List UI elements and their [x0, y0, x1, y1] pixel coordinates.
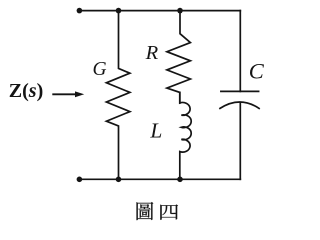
svg-text:G: G	[93, 59, 107, 80]
resistor G	[106, 11, 129, 180]
junction node RL top	[177, 8, 183, 14]
caption char 四	[160, 204, 178, 219]
caption char 圖	[137, 202, 154, 220]
svg-text:L: L	[149, 118, 162, 142]
wire right side top (to capacitor)	[239, 11, 241, 92]
junction node RL bottom	[177, 177, 183, 183]
svg-text:Z(s): Z(s)	[9, 80, 43, 102]
capacitor C top plate	[221, 90, 259, 92]
arrow head	[75, 91, 84, 97]
junction node G top	[116, 8, 122, 14]
arrow shaft	[53, 93, 76, 95]
svg-text:C: C	[249, 59, 265, 84]
wire bottom rail	[79, 178, 240, 180]
terminal node top-left	[77, 8, 83, 14]
junction node G bottom	[116, 177, 122, 183]
terminal node bottom-left	[77, 177, 83, 183]
inductor L	[180, 92, 191, 179]
capacitor C curved bottom plate	[220, 102, 259, 108]
wire right side bottom (capacitor to bottom rail)	[239, 103, 241, 180]
wire top rail	[79, 10, 240, 12]
svg-text:R: R	[145, 42, 159, 64]
resistor R	[167, 11, 191, 103]
